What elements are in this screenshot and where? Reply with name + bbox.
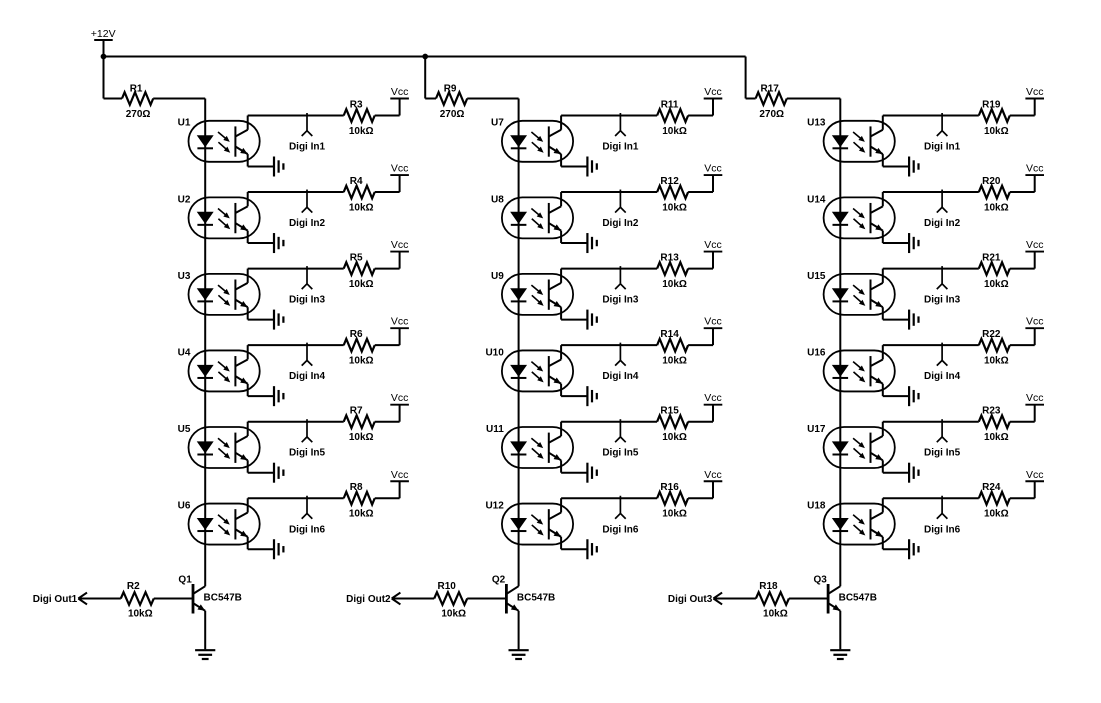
ground (signal, horizontal) [587, 539, 596, 559]
optocoupler U13 [824, 121, 895, 162]
svg-text:R20: R20 [982, 176, 1001, 187]
svg-text:10kΩ: 10kΩ [349, 509, 374, 520]
wire R16 to Vcc [688, 481, 713, 498]
wire Digi Out to R2 [79, 598, 121, 600]
svg-text:Digi In5: Digi In5 [924, 448, 961, 459]
svg-text:Digi In2: Digi In2 [602, 218, 639, 229]
wire U3 collector to R5 [248, 269, 344, 283]
wire U10 emitter to ground [561, 384, 587, 396]
node Digi In4 tap [615, 343, 626, 366]
wire U9 emitter to ground [561, 307, 587, 319]
optocoupler U6 [189, 504, 260, 545]
wire U18 emitter to ground [883, 537, 909, 549]
svg-text:R23: R23 [982, 406, 1001, 417]
node Digi In3 tap [615, 266, 626, 289]
transistor Q2 BC547B [506, 584, 518, 614]
wire U7 collector to R11 [561, 116, 657, 130]
svg-text:R21: R21 [982, 252, 1001, 263]
wire R1 to bus [153, 98, 205, 100]
svg-text:Vcc: Vcc [1026, 316, 1044, 328]
node Digi In3 tap [302, 266, 313, 289]
node Digi In5 tap [937, 419, 948, 442]
ground (signal, horizontal) [587, 157, 596, 177]
power Vcc [704, 327, 723, 329]
power Vcc [390, 251, 409, 253]
resistor R24 [979, 492, 1010, 505]
optocoupler U12 [502, 504, 573, 545]
power Vcc [390, 174, 409, 176]
svg-text:10kΩ: 10kΩ [441, 609, 466, 620]
svg-text:U12: U12 [485, 500, 504, 511]
wire U9 collector to R13 [561, 269, 657, 283]
svg-text:U2: U2 [178, 194, 191, 205]
svg-text:Vcc: Vcc [1026, 239, 1044, 251]
svg-text:Digi Out3: Digi Out3 [668, 594, 713, 605]
svg-text:+12V: +12V [91, 28, 116, 40]
wire R10 to Q2 base [467, 598, 506, 600]
svg-text:10kΩ: 10kΩ [128, 609, 153, 620]
svg-text:270Ω: 270Ω [759, 109, 784, 120]
svg-text:10kΩ: 10kΩ [662, 202, 687, 213]
svg-text:Digi In6: Digi In6 [924, 524, 961, 535]
resistor R8 [344, 492, 375, 505]
svg-text:R7: R7 [350, 406, 363, 417]
resistor R21 [979, 262, 1010, 275]
resistor R18 [756, 592, 789, 605]
resistor R22 [979, 339, 1010, 352]
ground (signal, horizontal) [274, 463, 283, 483]
ground (signal, horizontal) [274, 233, 283, 253]
power Vcc [390, 480, 409, 482]
wire U2 collector to R4 [248, 192, 344, 206]
wire R15 to Vcc [688, 405, 713, 422]
svg-text:Vcc: Vcc [1026, 163, 1044, 175]
optocoupler U10 [502, 350, 573, 391]
svg-text:U3: U3 [178, 271, 191, 282]
wire column1 feed drop [103, 57, 105, 99]
ground (signal, horizontal) [274, 310, 283, 330]
power Vcc [704, 98, 723, 100]
svg-text:U16: U16 [807, 347, 826, 358]
optocoupler U17 [824, 427, 895, 468]
svg-text:Vcc: Vcc [704, 239, 722, 251]
svg-text:R6: R6 [350, 329, 363, 340]
wire U5 collector to R7 [248, 422, 344, 436]
ground (signal, horizontal) [587, 463, 596, 483]
svg-text:10kΩ: 10kΩ [984, 279, 1009, 290]
power Vcc [390, 98, 409, 100]
svg-text:BC547B: BC547B [517, 592, 555, 603]
wire U16 collector to R22 [883, 345, 979, 359]
optocoupler U1 [189, 121, 260, 162]
svg-text:Digi In1: Digi In1 [602, 142, 639, 153]
optocoupler U14 [824, 197, 895, 238]
port Digi Out2 arrow [392, 593, 401, 605]
power Vcc [704, 404, 723, 406]
svg-text:270Ω: 270Ω [126, 109, 151, 120]
svg-text:Digi Out1: Digi Out1 [33, 594, 78, 605]
svg-text:U5: U5 [178, 424, 191, 435]
svg-text:10kΩ: 10kΩ [349, 126, 374, 137]
svg-text:10kΩ: 10kΩ [984, 509, 1009, 520]
svg-text:R10: R10 [438, 581, 457, 592]
wire R4 to Vcc [375, 175, 400, 192]
resistor R6 [344, 339, 375, 352]
svg-text:R13: R13 [660, 252, 679, 263]
wire R8 to Vcc [375, 481, 400, 498]
wire U6 emitter to ground [248, 537, 274, 549]
wire U10 collector to R14 [561, 345, 657, 359]
svg-text:Q3: Q3 [814, 575, 828, 586]
svg-text:Vcc: Vcc [704, 86, 722, 98]
svg-text:Digi In3: Digi In3 [289, 295, 326, 306]
svg-text:U13: U13 [807, 118, 826, 129]
svg-text:R17: R17 [761, 83, 780, 94]
wire U11 collector to R15 [561, 422, 657, 436]
ground (signal, horizontal) [587, 310, 596, 330]
wire R6 to Vcc [375, 328, 400, 345]
power +12V [94, 40, 113, 57]
wire U14 collector to R20 [883, 192, 979, 206]
node Digi In5 tap [615, 419, 626, 442]
svg-text:10kΩ: 10kΩ [349, 202, 374, 213]
wire R24 to Vcc [1010, 481, 1035, 498]
svg-text:Digi In2: Digi In2 [289, 218, 326, 229]
svg-text:Vcc: Vcc [704, 163, 722, 175]
wire U16 emitter to ground [883, 384, 909, 396]
ground (earth) [195, 650, 215, 659]
svg-text:R11: R11 [661, 99, 679, 110]
svg-text:U10: U10 [485, 347, 504, 358]
svg-text:Vcc: Vcc [391, 316, 409, 328]
svg-text:Digi In6: Digi In6 [289, 524, 326, 535]
wire feed to R9 [425, 98, 436, 100]
ground (signal, horizontal) [587, 233, 596, 253]
svg-text:Vcc: Vcc [391, 392, 409, 404]
svg-text:10kΩ: 10kΩ [984, 126, 1009, 137]
resistor R7 [344, 415, 375, 428]
wire +12V rail [104, 56, 746, 58]
wire Digi Out to R10 [393, 598, 435, 600]
svg-text:Vcc: Vcc [391, 239, 409, 251]
resistor R10 [434, 592, 467, 605]
resistor R19 [979, 109, 1010, 122]
svg-text:Q1: Q1 [178, 575, 192, 586]
svg-text:Vcc: Vcc [1026, 469, 1044, 481]
svg-text:Vcc: Vcc [391, 163, 409, 175]
optocoupler U2 [189, 197, 260, 238]
wire U17 collector to R23 [883, 422, 979, 436]
optocoupler U16 [824, 350, 895, 391]
node Digi In5 tap [302, 419, 313, 442]
resistor R13 [657, 262, 688, 275]
node Digi In2 tap [302, 190, 313, 213]
wire Q3 emitter [839, 611, 841, 650]
wire LED bus column 1 [204, 99, 206, 587]
power Vcc [390, 404, 409, 406]
svg-text:270Ω: 270Ω [440, 109, 465, 120]
ground (signal, horizontal) [909, 157, 918, 177]
svg-text:U9: U9 [491, 271, 504, 282]
svg-text:R14: R14 [660, 329, 679, 340]
wire R22 to Vcc [1010, 328, 1035, 345]
svg-text:10kΩ: 10kΩ [662, 509, 687, 520]
wire R19 to Vcc [1010, 99, 1035, 116]
wire U1 collector to R3 [248, 116, 344, 130]
svg-text:R24: R24 [982, 482, 1001, 493]
svg-text:R5: R5 [350, 252, 363, 263]
optocoupler U18 [824, 504, 895, 545]
optocoupler U11 [502, 427, 573, 468]
power Vcc [1025, 404, 1044, 406]
svg-text:R18: R18 [759, 581, 778, 592]
svg-text:Vcc: Vcc [391, 469, 409, 481]
svg-text:U11: U11 [486, 424, 504, 435]
optocoupler U15 [824, 274, 895, 315]
wire R20 to Vcc [1010, 175, 1035, 192]
resistor R1 [122, 92, 153, 105]
power Vcc [1025, 174, 1044, 176]
ground (signal, horizontal) [909, 539, 918, 559]
wire U15 collector to R21 [883, 269, 979, 283]
wire R17 to bus [787, 98, 841, 100]
wire U17 emitter to ground [883, 460, 909, 472]
ground (signal, horizontal) [274, 539, 283, 559]
wire R5 to Vcc [375, 252, 400, 269]
ground (signal, horizontal) [909, 233, 918, 253]
resistor R9 [436, 92, 467, 105]
node Digi In6 tap [615, 496, 626, 519]
svg-text:10kΩ: 10kΩ [984, 355, 1009, 366]
wire R14 to Vcc [688, 328, 713, 345]
wire R11 to Vcc [688, 99, 713, 116]
resistor R20 [979, 186, 1010, 199]
wire R9 to bus [467, 98, 518, 100]
svg-text:Digi In3: Digi In3 [924, 295, 961, 306]
node Digi In6 tap [302, 496, 313, 519]
svg-text:Digi In5: Digi In5 [289, 448, 326, 459]
svg-text:10kΩ: 10kΩ [763, 609, 788, 620]
ground (signal, horizontal) [909, 386, 918, 406]
port Digi Out3 arrow [713, 593, 722, 605]
svg-text:10kΩ: 10kΩ [984, 432, 1009, 443]
svg-text:Digi In3: Digi In3 [602, 295, 639, 306]
optocoupler U8 [502, 197, 573, 238]
svg-text:R4: R4 [350, 176, 363, 187]
svg-text:Vcc: Vcc [391, 86, 409, 98]
ground (signal, horizontal) [274, 157, 283, 177]
svg-text:10kΩ: 10kΩ [984, 202, 1009, 213]
wire U8 emitter to ground [561, 231, 587, 243]
power Vcc [704, 480, 723, 482]
svg-text:BC547B: BC547B [204, 592, 242, 603]
wire U12 collector to R16 [561, 498, 657, 512]
resistor R2 [121, 592, 154, 605]
wire U12 emitter to ground [561, 537, 587, 549]
wire U6 collector to R8 [248, 498, 344, 512]
svg-text:10kΩ: 10kΩ [662, 355, 687, 366]
svg-text:10kΩ: 10kΩ [662, 279, 687, 290]
wire U2 emitter to ground [248, 231, 274, 243]
port Digi Out1 arrow [78, 593, 87, 605]
node Digi In1 tap [937, 113, 948, 136]
optocoupler U3 [189, 274, 260, 315]
node Digi In2 tap [937, 190, 948, 213]
wire U1 emitter to ground [248, 154, 274, 166]
power Vcc [1025, 327, 1044, 329]
wire U18 collector to R24 [883, 498, 979, 512]
svg-text:Digi In2: Digi In2 [924, 218, 961, 229]
svg-text:R9: R9 [444, 83, 457, 94]
svg-text:Vcc: Vcc [1026, 86, 1044, 98]
svg-text:Digi In4: Digi In4 [289, 371, 326, 382]
svg-text:Digi In1: Digi In1 [924, 142, 961, 153]
wire R23 to Vcc [1010, 405, 1035, 422]
wire U7 emitter to ground [561, 154, 587, 166]
ground (signal, horizontal) [587, 386, 596, 406]
node Digi In1 tap [302, 113, 313, 136]
svg-text:Digi In5: Digi In5 [602, 448, 639, 459]
wire R18 to Q3 base [789, 598, 828, 600]
svg-text:10kΩ: 10kΩ [349, 279, 374, 290]
wire U8 collector to R12 [561, 192, 657, 206]
node Digi In4 tap [937, 343, 948, 366]
power Vcc [1025, 251, 1044, 253]
wire R12 to Vcc [688, 175, 713, 192]
power Vcc [1025, 98, 1044, 100]
resistor R16 [657, 492, 688, 505]
transistor Q1 BC547B [193, 584, 205, 614]
wire feed to R1 [104, 98, 123, 100]
wire feed to R17 [746, 98, 756, 100]
node Digi In4 tap [302, 343, 313, 366]
wire R3 to Vcc [375, 99, 400, 116]
wire LED bus column 3 [839, 99, 841, 587]
junction at column 2 drop [422, 54, 428, 60]
resistor R5 [344, 262, 375, 275]
wire U5 emitter to ground [248, 460, 274, 472]
wire R13 to Vcc [688, 252, 713, 269]
svg-text:R15: R15 [660, 406, 679, 417]
power Vcc [704, 251, 723, 253]
node Digi In2 tap [615, 190, 626, 213]
resistor R11 [657, 109, 688, 122]
svg-text:U6: U6 [178, 500, 191, 511]
power Vcc [390, 327, 409, 329]
wire R2 to Q1 base [154, 598, 193, 600]
wire R7 to Vcc [375, 405, 400, 422]
svg-text:R2: R2 [127, 581, 140, 592]
svg-text:R1: R1 [130, 83, 143, 94]
wire U3 emitter to ground [248, 307, 274, 319]
transistor Q3 BC547B [828, 584, 840, 614]
svg-text:R16: R16 [660, 482, 679, 493]
wire U13 collector to R19 [883, 116, 979, 130]
svg-text:BC547B: BC547B [839, 592, 877, 603]
wire U15 emitter to ground [883, 307, 909, 319]
svg-text:10kΩ: 10kΩ [349, 432, 374, 443]
optocoupler U7 [502, 121, 573, 162]
svg-text:Digi In6: Digi In6 [602, 524, 639, 535]
ground (signal, horizontal) [274, 386, 283, 406]
svg-text:R3: R3 [350, 99, 363, 110]
ground (signal, horizontal) [909, 310, 918, 330]
wire Digi Out to R18 [714, 598, 756, 600]
svg-text:10kΩ: 10kΩ [662, 432, 687, 443]
svg-text:Vcc: Vcc [704, 316, 722, 328]
svg-text:Digi In1: Digi In1 [289, 142, 326, 153]
wire Q1 emitter [204, 611, 206, 650]
node Digi In3 tap [937, 266, 948, 289]
optocoupler U5 [189, 427, 260, 468]
resistor R14 [657, 339, 688, 352]
svg-text:R19: R19 [982, 99, 1001, 110]
wire Q2 emitter [518, 611, 520, 650]
svg-text:Digi In4: Digi In4 [924, 371, 961, 382]
svg-text:Digi In4: Digi In4 [602, 371, 639, 382]
svg-text:10kΩ: 10kΩ [349, 355, 374, 366]
wire LED bus column 2 [518, 99, 520, 587]
optocoupler U4 [189, 350, 260, 391]
resistor R4 [344, 186, 375, 199]
resistor R3 [344, 109, 375, 122]
ground (signal, horizontal) [909, 463, 918, 483]
svg-text:U4: U4 [178, 347, 191, 358]
wire R21 to Vcc [1010, 252, 1035, 269]
power Vcc [1025, 480, 1044, 482]
svg-text:U17: U17 [807, 424, 826, 435]
resistor R15 [657, 415, 688, 428]
svg-text:U14: U14 [807, 194, 826, 205]
power Vcc [704, 174, 723, 176]
svg-text:U18: U18 [807, 500, 826, 511]
svg-text:U1: U1 [178, 118, 191, 129]
svg-text:R22: R22 [982, 329, 1001, 340]
wire U4 emitter to ground [248, 384, 274, 396]
node Digi In6 tap [937, 496, 948, 519]
svg-text:R12: R12 [660, 176, 679, 187]
wire U4 collector to R6 [248, 345, 344, 359]
svg-text:R8: R8 [350, 482, 363, 493]
node Digi In1 tap [615, 113, 626, 136]
svg-text:Vcc: Vcc [704, 469, 722, 481]
svg-text:Vcc: Vcc [704, 392, 722, 404]
svg-text:Vcc: Vcc [1026, 392, 1044, 404]
junction at +12V drop [101, 54, 107, 60]
resistor R12 [657, 186, 688, 199]
wire U11 emitter to ground [561, 460, 587, 472]
wire column2 feed drop [424, 57, 426, 99]
wire U14 emitter to ground [883, 231, 909, 243]
svg-text:Digi Out2: Digi Out2 [346, 594, 391, 605]
wire column3 feed drop [745, 57, 747, 99]
wire U13 emitter to ground [883, 154, 909, 166]
ground (earth) [830, 650, 850, 659]
resistor R17 [756, 92, 787, 105]
svg-text:U7: U7 [491, 118, 504, 129]
ground (earth) [509, 650, 529, 659]
optocoupler U9 [502, 274, 573, 315]
svg-text:Q2: Q2 [492, 575, 506, 586]
svg-text:U15: U15 [807, 271, 826, 282]
resistor R23 [979, 415, 1010, 428]
svg-text:U8: U8 [491, 194, 504, 205]
svg-text:10kΩ: 10kΩ [662, 126, 687, 137]
